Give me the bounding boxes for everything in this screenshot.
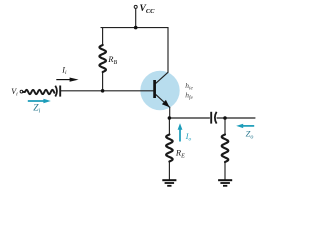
svg-text:hfe: hfe	[185, 90, 193, 101]
svg-text:RE: RE	[175, 148, 185, 160]
svg-text:VCC: VCC	[140, 4, 156, 15]
svg-text:Zi: Zi	[33, 104, 40, 115]
svg-text:Ii: Ii	[61, 65, 67, 76]
svg-text:Zo: Zo	[246, 129, 254, 141]
svg-text:Io: Io	[185, 132, 192, 143]
svg-text:Vi: Vi	[11, 87, 18, 98]
svg-text:RB: RB	[107, 54, 117, 66]
